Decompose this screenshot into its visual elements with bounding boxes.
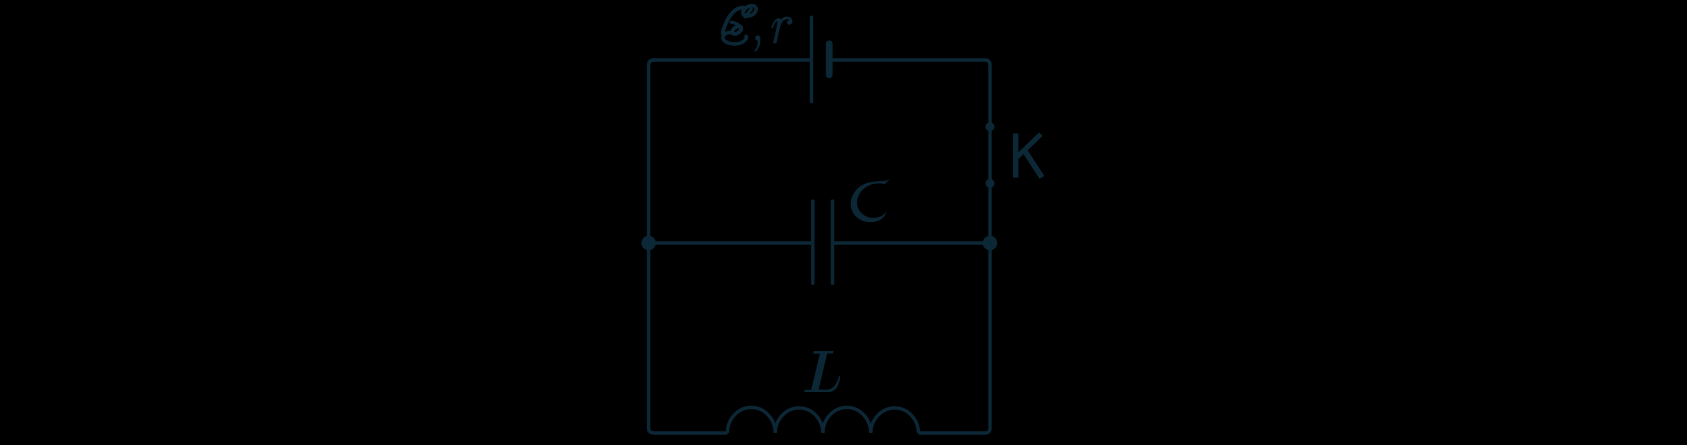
label r (internal resistance): [771, 17, 792, 44]
label L (inductance): [804, 351, 840, 392]
battery short plate (negative): [826, 44, 833, 75]
wire right vertical lower + bottom right segment: [919, 243, 991, 433]
battery long plate (positive): [810, 17, 813, 101]
label script-E (EMF): [723, 4, 758, 44]
wire switch to mid junction (right vertical middle): [988, 127, 991, 243]
label K (switch): [1016, 134, 1042, 178]
capacitor C right plate: [831, 201, 834, 283]
label comma after script-E: [754, 35, 760, 51]
wire top-right segment + right vertical upper: [829, 60, 990, 127]
wire top-left loop (top wire left segment + left vertical upper): [649, 60, 812, 243]
wire left vertical lower + bottom left segment: [649, 243, 728, 433]
label C (capacitance): [851, 179, 891, 222]
switch K upper dot: [986, 122, 995, 131]
junction node right: [983, 236, 997, 250]
wire middle right (capacitor to junction): [833, 241, 991, 244]
wire middle left (junction to capacitor): [649, 241, 813, 244]
inductor L coil humps: [727, 407, 918, 433]
capacitor C left plate: [811, 201, 814, 283]
junction node left: [641, 236, 655, 250]
switch K lower dot: [986, 179, 995, 188]
